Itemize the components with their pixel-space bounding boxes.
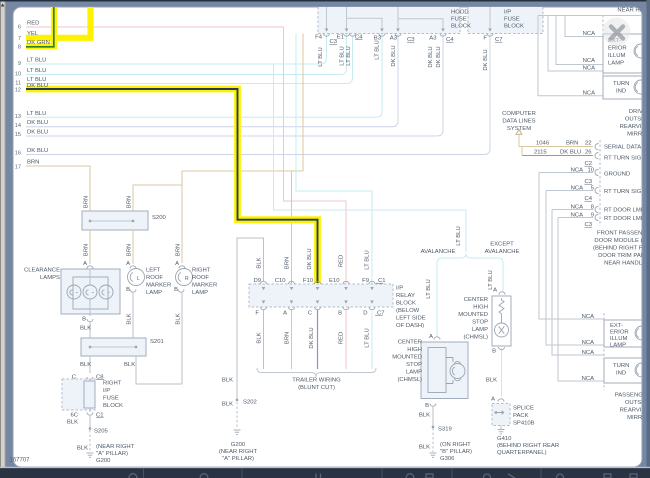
svg-text:B: B xyxy=(492,349,496,355)
svg-text:NEAR HANDLE): NEAR HANDLE) xyxy=(604,261,648,267)
svg-text:F9: F9 xyxy=(362,278,369,284)
svg-text:NCA: NCA xyxy=(571,186,584,192)
svg-text:NCA: NCA xyxy=(571,213,584,219)
svg-text:NCA: NCA xyxy=(582,340,595,346)
svg-text:6: 6 xyxy=(18,25,21,31)
svg-text:NCA: NCA xyxy=(582,314,595,320)
svg-text:I/P: I/P xyxy=(396,286,403,292)
svg-text:BLK: BLK xyxy=(80,326,91,332)
svg-text:CENTER: CENTER xyxy=(398,340,422,346)
svg-text:D: D xyxy=(363,311,367,317)
svg-text:RIGHT: RIGHT xyxy=(192,268,211,274)
svg-text:S201: S201 xyxy=(150,339,164,345)
svg-text:A3: A3 xyxy=(390,36,398,42)
svg-text:IND: IND xyxy=(616,89,626,95)
svg-text:MARKER: MARKER xyxy=(146,283,171,289)
svg-text:BLK: BLK xyxy=(419,413,430,419)
svg-text:"A" PILLAR): "A" PILLAR) xyxy=(222,456,254,462)
svg-text:L: L xyxy=(137,276,140,282)
svg-text:ROOF: ROOF xyxy=(146,275,163,281)
svg-text:AVALANCHE: AVALANCHE xyxy=(485,249,520,255)
svg-text:BLK: BLK xyxy=(419,445,430,451)
svg-text:LEFT: LEFT xyxy=(146,268,161,274)
svg-text:12: 12 xyxy=(15,88,21,94)
svg-text:A: A xyxy=(175,261,179,267)
svg-text:HIGH: HIGH xyxy=(473,305,488,311)
svg-text:DK BLU: DK BLU xyxy=(27,130,48,136)
svg-text:LAMPS: LAMPS xyxy=(40,275,60,281)
svg-text:BLOCK: BLOCK xyxy=(396,301,416,307)
svg-text:16: 16 xyxy=(15,151,21,157)
svg-text:ROOF: ROOF xyxy=(192,275,209,281)
svg-text:RIGHT: RIGHT xyxy=(103,381,122,387)
svg-text:DK GRN: DK GRN xyxy=(27,40,50,46)
svg-text:MOUNTED: MOUNTED xyxy=(458,312,488,318)
svg-text:FUSE: FUSE xyxy=(451,17,467,23)
svg-text:6C: 6C xyxy=(70,413,78,419)
svg-text:C: C xyxy=(308,311,313,317)
svg-text:LT BLU: LT BLU xyxy=(365,250,371,269)
svg-text:DK BLU: DK BLU xyxy=(391,45,397,66)
svg-text:MOUNTED: MOUNTED xyxy=(392,355,422,361)
svg-text:BRN: BRN xyxy=(176,244,182,256)
svg-text:GROUND: GROUND xyxy=(604,172,630,178)
svg-text:(NEAR RIGHT: (NEAR RIGHT xyxy=(96,444,135,450)
svg-text:B: B xyxy=(174,287,178,293)
svg-text:BRN: BRN xyxy=(566,141,578,147)
svg-text:LT BLU: LT BLU xyxy=(27,111,46,117)
svg-text:A: A xyxy=(83,261,87,267)
svg-text:FUSE: FUSE xyxy=(504,17,520,23)
svg-text:"B" PILLAR): "B" PILLAR) xyxy=(440,449,472,455)
svg-text:BLK: BLK xyxy=(222,378,233,384)
svg-text:B: B xyxy=(338,311,342,317)
svg-text:S205: S205 xyxy=(94,429,108,435)
svg-text:BRN: BRN xyxy=(285,257,291,269)
svg-text:LT BLU: LT BLU xyxy=(426,279,432,298)
svg-text:DK BLU: DK BLU xyxy=(560,150,581,156)
svg-text:HOOD: HOOD xyxy=(451,10,469,16)
svg-text:STOP: STOP xyxy=(472,320,488,326)
svg-text:BRN: BRN xyxy=(127,244,133,256)
svg-text:F4: F4 xyxy=(315,35,323,41)
svg-text:BLOCK: BLOCK xyxy=(504,24,524,30)
svg-text:G200: G200 xyxy=(231,442,246,448)
svg-text:DK BLU: DK BLU xyxy=(436,46,442,67)
svg-text:RELAY: RELAY xyxy=(396,293,415,299)
svg-text:LT BLU: LT BLU xyxy=(318,47,324,66)
svg-text:DK BLU: DK BLU xyxy=(27,148,48,154)
svg-text:22: 22 xyxy=(585,141,592,147)
svg-text:G410: G410 xyxy=(497,436,512,442)
svg-text:G200: G200 xyxy=(96,458,111,464)
svg-text:S319: S319 xyxy=(438,427,452,433)
svg-text:BLK: BLK xyxy=(486,378,497,384)
svg-text:BLK: BLK xyxy=(222,402,233,408)
svg-text:DOOR MODULE (PDM): DOOR MODULE (PDM) xyxy=(594,238,650,244)
svg-text:STOP: STOP xyxy=(406,362,422,368)
svg-text:TRAILER WIRING: TRAILER WIRING xyxy=(292,378,341,384)
svg-text:B: B xyxy=(126,287,130,293)
svg-text:BRN: BRN xyxy=(84,196,90,208)
svg-text:10: 10 xyxy=(587,168,594,174)
svg-text:A: A xyxy=(491,397,495,403)
svg-text:DATA LINES: DATA LINES xyxy=(502,119,535,125)
svg-text:F: F xyxy=(483,36,487,42)
svg-text:PACK: PACK xyxy=(513,413,529,419)
svg-text:LAMP: LAMP xyxy=(406,370,422,376)
svg-text:BLK: BLK xyxy=(124,362,135,368)
svg-text:CENTER: CENTER xyxy=(464,297,488,303)
svg-text:DK BLU: DK BLU xyxy=(27,120,48,126)
svg-text:ILLUM: ILLUM xyxy=(608,53,625,59)
svg-text:D9: D9 xyxy=(253,278,261,284)
svg-text:LEFT SIDE: LEFT SIDE xyxy=(396,316,426,322)
svg-text:26: 26 xyxy=(585,150,592,156)
svg-text:NCA: NCA xyxy=(583,31,596,37)
svg-text:A3: A3 xyxy=(429,36,437,42)
svg-text:13: 13 xyxy=(15,114,21,120)
svg-text:TURN: TURN xyxy=(613,363,629,369)
svg-text:A: A xyxy=(126,261,130,267)
svg-text:BRN: BRN xyxy=(27,160,39,166)
svg-text:LT BLU: LT BLU xyxy=(346,46,352,65)
svg-text:(BEHIND RIGHT FRONT: (BEHIND RIGHT FRONT xyxy=(593,246,650,252)
svg-text:BRN: BRN xyxy=(84,244,90,256)
svg-text:F10: F10 xyxy=(303,278,314,284)
svg-text:1046: 1046 xyxy=(536,141,550,147)
svg-text:NCA: NCA xyxy=(582,376,595,382)
svg-text:DK BLU: DK BLU xyxy=(307,248,313,269)
svg-text:NCA: NCA xyxy=(583,91,596,97)
svg-text:NCA: NCA xyxy=(583,66,596,72)
svg-text:9: 9 xyxy=(591,213,594,219)
svg-text:"A" PILLAR): "A" PILLAR) xyxy=(96,451,128,457)
svg-text:A: A xyxy=(429,334,433,340)
svg-text:(BELOW: (BELOW xyxy=(396,308,420,314)
svg-text:RT TURN SIG: RT TURN SIG xyxy=(604,156,642,162)
svg-text:YEL: YEL xyxy=(27,31,39,37)
svg-text:OF DASH): OF DASH) xyxy=(396,323,424,329)
svg-text:CLEARANCE: CLEARANCE xyxy=(24,268,60,274)
svg-text:7: 7 xyxy=(18,36,21,42)
svg-text:2115: 2115 xyxy=(534,150,547,156)
svg-text:9: 9 xyxy=(18,61,21,67)
svg-text:COMPUTER: COMPUTER xyxy=(502,111,536,117)
svg-text:ILLUM: ILLUM xyxy=(610,336,627,342)
svg-text:I/P: I/P xyxy=(504,10,511,16)
svg-text:C10: C10 xyxy=(275,278,287,284)
svg-text:BRN: BRN xyxy=(127,196,133,208)
svg-text:RED: RED xyxy=(339,255,345,267)
svg-text:LAMP: LAMP xyxy=(146,290,162,296)
svg-text:17: 17 xyxy=(15,165,21,171)
svg-text:BLOCK: BLOCK xyxy=(103,403,123,409)
svg-text:BLK: BLK xyxy=(77,446,88,452)
svg-text:LT BLU: LT BLU xyxy=(456,226,462,245)
svg-text:14: 14 xyxy=(15,123,21,129)
svg-text:LT BLU: LT BLU xyxy=(340,46,346,65)
svg-text:NCA: NCA xyxy=(571,168,584,174)
svg-text:LAMP: LAMP xyxy=(610,343,626,349)
svg-text:E1: E1 xyxy=(337,35,344,41)
svg-text:G306: G306 xyxy=(440,456,455,462)
svg-text:I/P: I/P xyxy=(103,388,110,394)
svg-text:B: B xyxy=(425,403,429,409)
svg-text:A: A xyxy=(493,288,497,294)
svg-text:EXT-: EXT- xyxy=(610,323,623,329)
svg-text:SPLICE: SPLICE xyxy=(513,406,534,412)
svg-text:ERIOR: ERIOR xyxy=(610,330,629,336)
svg-text:ERIOR: ERIOR xyxy=(608,46,627,52)
svg-text:LAMP: LAMP xyxy=(192,290,208,296)
svg-text:EXCEPT: EXCEPT xyxy=(490,242,514,248)
svg-text:LT BLU: LT BLU xyxy=(375,40,381,59)
svg-text:SERIAL DATA: SERIAL DATA xyxy=(604,145,641,151)
svg-text:LAMP: LAMP xyxy=(472,327,488,333)
svg-text:A: A xyxy=(283,311,287,317)
svg-text:MARKER: MARKER xyxy=(192,283,217,289)
svg-text:11: 11 xyxy=(15,81,21,87)
svg-text:HIGH: HIGH xyxy=(407,347,422,353)
svg-text:(BEHIND RIGHT REAR: (BEHIND RIGHT REAR xyxy=(497,443,559,449)
svg-text:E10: E10 xyxy=(329,278,340,284)
svg-text:NCA: NCA xyxy=(582,350,595,356)
svg-text:QUARTERPANEL): QUARTERPANEL) xyxy=(497,450,547,456)
svg-text:SP410B: SP410B xyxy=(513,421,535,427)
svg-text:DK BLU: DK BLU xyxy=(483,49,489,70)
svg-text:BLK: BLK xyxy=(127,313,133,324)
svg-text:B: B xyxy=(82,317,86,323)
svg-text:FUSE: FUSE xyxy=(103,396,119,402)
svg-text:S200: S200 xyxy=(152,215,166,221)
svg-text:(CHMSL): (CHMSL) xyxy=(463,335,488,341)
svg-text:(ON RIGHT: (ON RIGHT xyxy=(440,442,471,448)
svg-text:DK BLU: DK BLU xyxy=(428,46,434,67)
svg-text:RED: RED xyxy=(27,21,39,27)
svg-text:10: 10 xyxy=(15,72,21,78)
svg-text:167707: 167707 xyxy=(10,458,31,464)
svg-text:TURN: TURN xyxy=(613,81,629,87)
svg-text:BLOCK: BLOCK xyxy=(451,24,471,30)
svg-text:S202: S202 xyxy=(243,400,257,406)
svg-text:R: R xyxy=(185,276,189,282)
svg-text:AVALANCHE: AVALANCHE xyxy=(421,249,456,255)
svg-text:15: 15 xyxy=(15,132,21,138)
svg-text:LT BLU: LT BLU xyxy=(27,58,46,64)
svg-text:(NEAR RIGHT: (NEAR RIGHT xyxy=(219,449,258,455)
svg-text:NCA: NCA xyxy=(583,58,596,64)
svg-text:BLK: BLK xyxy=(80,362,91,368)
svg-text:LT BLU: LT BLU xyxy=(365,328,371,347)
svg-text:RED: RED xyxy=(339,332,345,344)
svg-text:NCA: NCA xyxy=(571,205,584,211)
svg-text:LAMP: LAMP xyxy=(608,61,624,67)
svg-text:BRN: BRN xyxy=(285,332,291,344)
svg-text:8: 8 xyxy=(18,45,21,51)
svg-text:IND: IND xyxy=(616,371,626,377)
svg-text:DK BLU: DK BLU xyxy=(27,83,48,89)
svg-text:(BLUNT CUT): (BLUNT CUT) xyxy=(298,385,335,391)
svg-text:(CHMSL): (CHMSL) xyxy=(397,377,422,383)
svg-text:LT BLU: LT BLU xyxy=(27,68,46,74)
svg-text:BLK: BLK xyxy=(257,257,263,268)
svg-text:BLK: BLK xyxy=(67,420,78,426)
svg-text:BLK: BLK xyxy=(257,332,263,343)
svg-text:BLK: BLK xyxy=(176,313,182,324)
svg-text:DK BLU: DK BLU xyxy=(309,327,315,348)
svg-text:F: F xyxy=(255,311,259,317)
